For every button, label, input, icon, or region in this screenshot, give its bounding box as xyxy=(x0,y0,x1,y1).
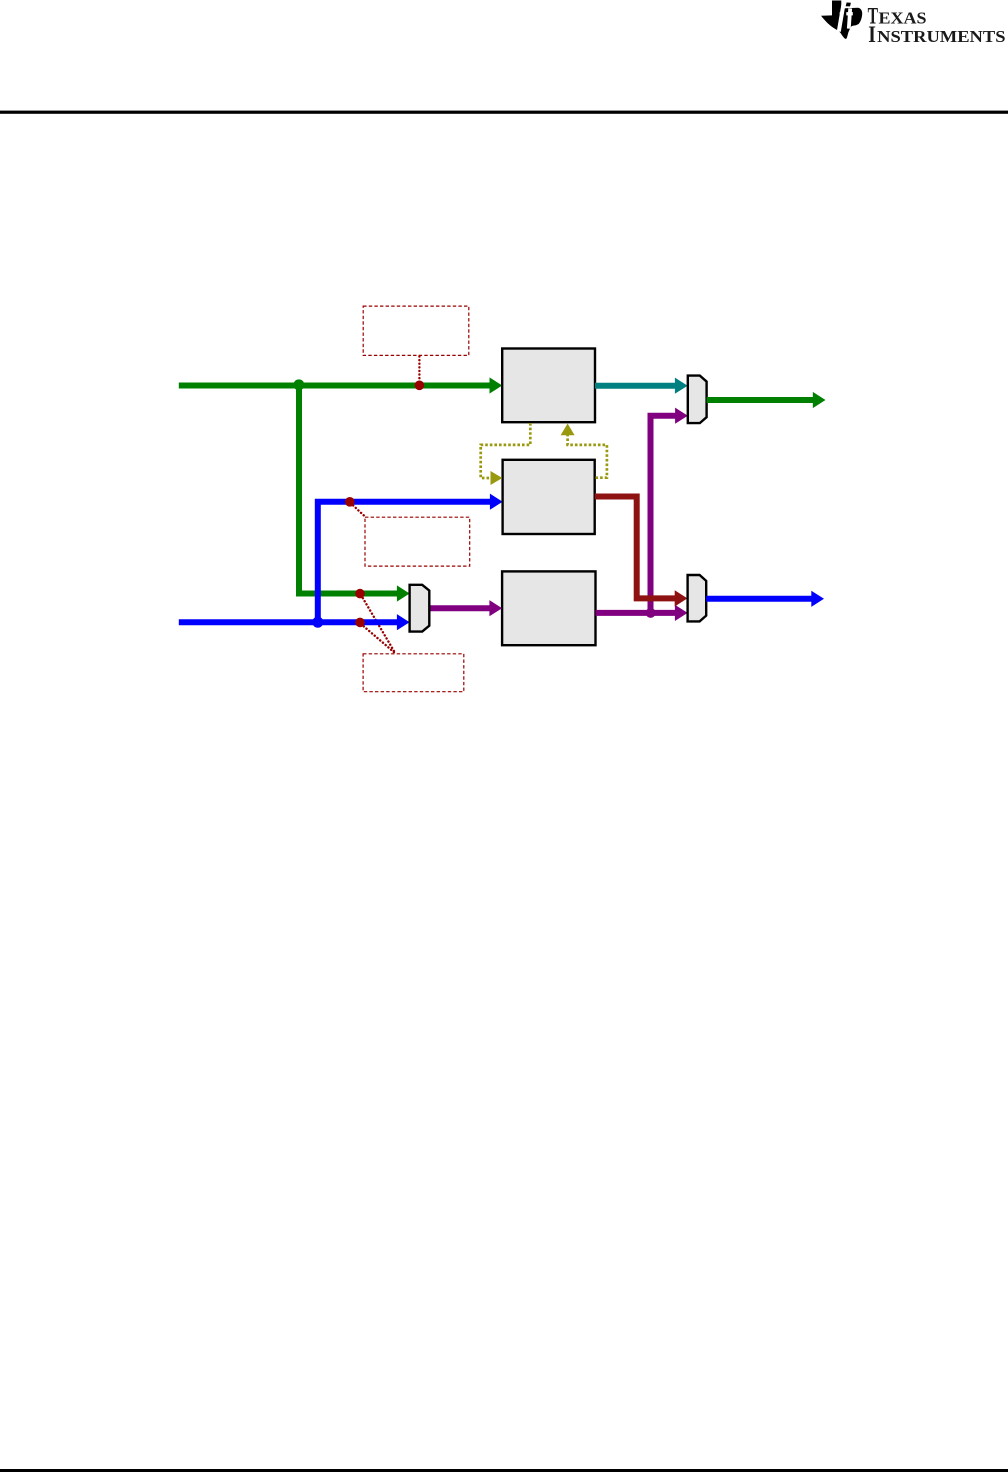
dashed callout box D2 (middle) xyxy=(365,517,470,566)
wire: green branch down to mux M2 xyxy=(299,386,410,602)
node: purple junction dot xyxy=(646,608,656,618)
wire: blue branch up into block B2 xyxy=(318,494,503,623)
olive feedback path B: B2 right to B1 bottom input xyxy=(561,424,607,478)
wire: teal net B1 to mux M1 xyxy=(595,378,688,394)
node: maroon tap dot on blue branch xyxy=(345,497,355,507)
wire: green output net from mux M1 xyxy=(707,392,826,408)
dotted leader from blue branch tap to D2 xyxy=(351,503,367,518)
block B1 xyxy=(502,349,595,423)
dotted leader from green branch tap to D3 xyxy=(361,595,395,653)
node: maroon tap dot on green branch xyxy=(355,589,365,599)
node: maroon tap dot on blue main xyxy=(355,618,365,628)
block B3 xyxy=(502,571,595,645)
dotted leader from D1 to green wire tap xyxy=(418,357,420,383)
olive feedback path A: B1 bottom to B2 left input xyxy=(481,423,531,485)
wire: purple net B3 to mux M3 xyxy=(596,605,688,621)
mux M3 xyxy=(688,575,707,621)
wire: blue output net from mux M3 xyxy=(706,591,824,607)
wire: purple branch up to mux M1 xyxy=(651,408,688,613)
top header rule xyxy=(0,111,1008,114)
wire: green input net (horizontal into block B1) xyxy=(179,377,502,393)
svg-text:EXAS: EXAS xyxy=(879,9,927,28)
wire: purple net mux M2 to block B3 xyxy=(429,600,502,616)
svg-text:NSTRUMENTS: NSTRUMENTS xyxy=(877,27,1005,46)
dashed callout box D1 (top) xyxy=(363,306,469,355)
dashed callout box D3 (bottom) xyxy=(363,654,464,692)
TI logo Texas-map bug xyxy=(821,1,862,39)
mux M1 xyxy=(688,376,707,424)
block B2 xyxy=(503,460,595,534)
wire: maroon net B2 to mux M3 xyxy=(595,497,688,607)
node: maroon tap dot on green input xyxy=(415,381,425,391)
dotted leader from blue main tap to D3 xyxy=(361,624,395,653)
svg-text:I: I xyxy=(868,22,876,47)
bottom footer rule xyxy=(0,1469,1008,1472)
mux M2 xyxy=(410,585,430,632)
node: blue junction dot xyxy=(312,617,323,628)
wire: blue input net (horizontal into mux M2) xyxy=(179,614,410,630)
node: green junction dot xyxy=(293,379,304,390)
TI logo wordmark TEXAS xyxy=(868,4,1006,47)
